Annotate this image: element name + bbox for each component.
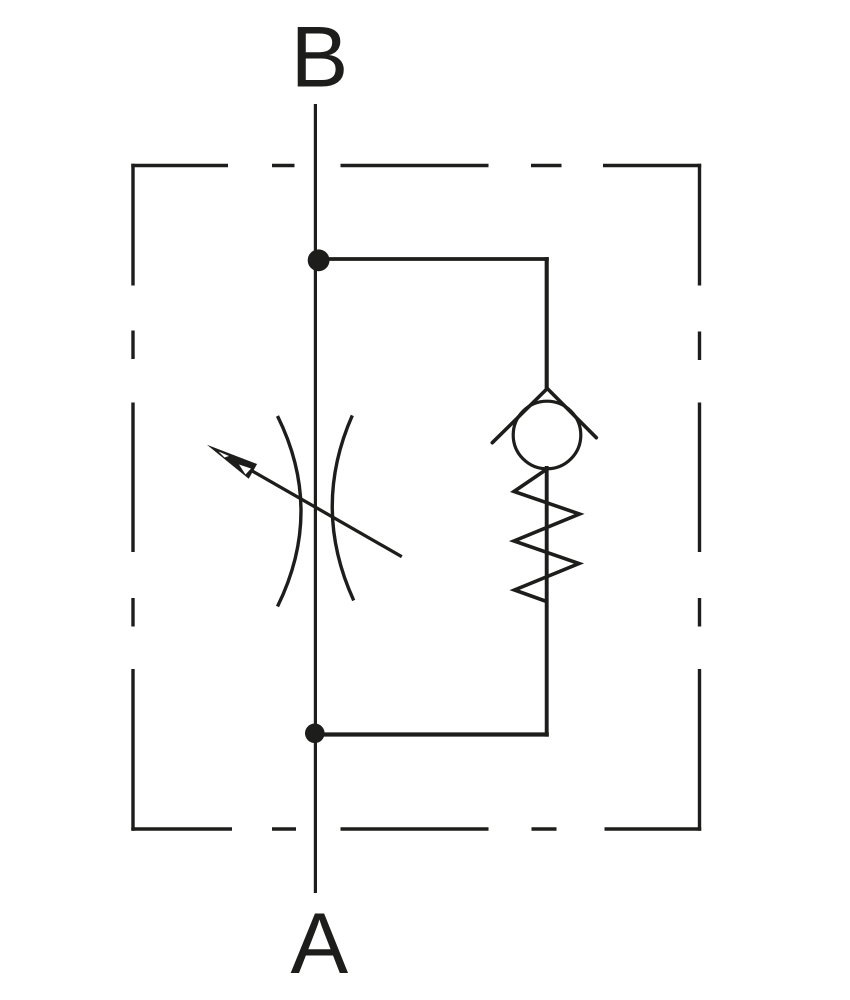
port label A — [290, 896, 348, 992]
check valve V1 ball (circle) — [513, 401, 581, 469]
throttle adjustment arrow shaft — [250, 470, 402, 557]
check valve V1 seat (V) — [492, 389, 596, 443]
enclosure boundary, left edge — [131, 164, 134, 831]
throttle adjustment arrow head — [207, 445, 257, 479]
enclosure boundary, bottom edge — [131, 827, 701, 830]
throttle FC1 left arc — [278, 416, 302, 607]
wire: main vertical line B to A — [314, 104, 317, 893]
svg-text:A: A — [290, 896, 348, 992]
junction node dot top (on line B) — [308, 249, 330, 271]
wire: bottom bypass branch horizontal — [315, 732, 549, 736]
port label B — [291, 10, 349, 106]
wire: bypass branch right vertical lower (through spring to bottom) — [545, 466, 549, 737]
enclosure boundary, right edge — [698, 164, 701, 831]
wire: bypass branch right vertical upper (to check valve seat) — [545, 257, 549, 388]
junction node dot bottom (on line A) — [305, 724, 325, 744]
wire: top bypass branch horizontal — [316, 257, 549, 261]
svg-text:B: B — [291, 10, 349, 106]
enclosure boundary (dash-dot valve body), top edge — [131, 164, 701, 167]
check valve V1 spring — [514, 469, 580, 602]
throttle FC1 right arc — [332, 415, 353, 600]
